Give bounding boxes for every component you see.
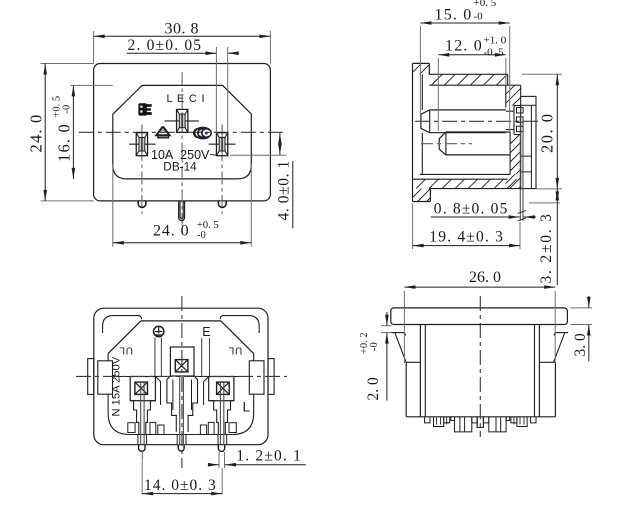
svg-text:3. 2±0. 3: 3. 2±0. 3 [538, 212, 555, 283]
svg-text:-0: -0 [62, 105, 73, 114]
svg-text:-0: -0 [369, 342, 380, 351]
svg-text:19. 4±0. 3: 19. 4±0. 3 [429, 229, 504, 246]
svg-text:-0: -0 [197, 230, 206, 241]
svg-text:16. 0: 16. 0 [55, 123, 74, 162]
svg-text:DB-14: DB-14 [163, 160, 197, 174]
svg-text:24. 0: 24. 0 [153, 223, 190, 240]
svg-text:30. 8: 30. 8 [165, 21, 200, 38]
svg-text:3. 0: 3. 0 [572, 333, 589, 357]
svg-text:L E C I: L E C I [167, 93, 206, 105]
svg-text:2. 0±0. 05: 2. 0±0. 05 [128, 37, 203, 54]
svg-text:+0. 5: +0. 5 [474, 0, 497, 9]
svg-text:4. 0±0. 1: 4. 0±0. 1 [276, 160, 293, 220]
svg-text:+1. 0: +1. 0 [484, 35, 507, 47]
svg-text:N 15A 250V: N 15A 250V [111, 356, 123, 416]
svg-text:2. 0: 2. 0 [365, 377, 382, 401]
svg-text:26. 0: 26. 0 [469, 269, 501, 286]
svg-text:20. 0: 20. 0 [538, 113, 557, 154]
svg-text:0. 8±0. 05: 0. 8±0. 05 [434, 200, 509, 217]
svg-text:-0. 5: -0. 5 [484, 47, 505, 59]
svg-text:1. 2±0. 1: 1. 2±0. 1 [236, 448, 302, 465]
svg-text:15. 0: 15. 0 [435, 7, 473, 24]
svg-text:14. 0±0. 3: 14. 0±0. 3 [144, 477, 217, 494]
svg-text:12. 0: 12. 0 [445, 38, 483, 55]
svg-text:UL: UL [228, 345, 242, 356]
svg-text:-0: -0 [474, 10, 484, 22]
svg-text:UL: UL [119, 345, 133, 356]
svg-text:24. 0: 24. 0 [27, 114, 46, 153]
svg-text:E: E [202, 325, 210, 339]
svg-text:L: L [243, 400, 251, 415]
